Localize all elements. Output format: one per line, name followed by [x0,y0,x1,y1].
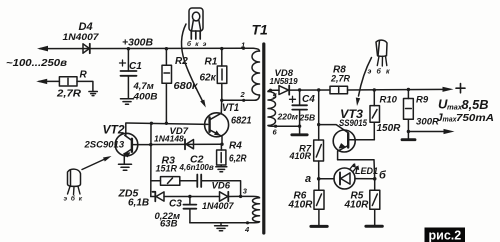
node: junction C4 / pin 6 wire [298,125,301,128]
svg-text:C4: C4 [302,94,315,105]
node: junction VT1 emitter / VD7 / R4 [220,143,223,146]
svg-text:R1: R1 [205,57,218,68]
svg-text:150R: 150R [377,123,402,134]
svg-text:3: 3 [243,186,248,195]
svg-text:25В: 25В [299,113,316,123]
svg-text:SS9015: SS9015 [339,118,368,128]
wire: VT3 emitter to node б [338,160,375,179]
transistor package icon TO-92 3D (right, for VT3) [376,40,387,66]
node: pin 4 dot [246,221,249,224]
node: junction R9 bottom [407,130,410,133]
terminal bar (R5 bottom) [366,225,382,228]
svg-text:2SC9013: 2SC9013 [84,140,125,151]
svg-text:рис.2: рис.2 [429,229,462,242]
svg-text:220м: 220м [277,112,299,122]
svg-text:~100...250в: ~100...250в [6,58,67,69]
svg-text:2,7R: 2,7R [56,88,82,99]
capacitor C4 [290,90,308,134]
svg-text:VT2: VT2 [103,123,125,137]
transformer T1 core [262,44,265,233]
transformer T1 secondary winding (pins 5-6) [268,90,276,126]
svg-text:8,5В: 8,5В [462,97,489,112]
svg-text:1N4007: 1N4007 [202,201,235,211]
svg-text:R: R [80,70,88,81]
node: junction VT3 collector branch [317,123,320,126]
node: AC input arrow (top terminal) [37,46,48,52]
svg-text:max: max [447,103,463,112]
svg-text:63В: 63В [160,219,178,230]
node: pin 6 dot [274,125,277,128]
node: junction C4 top [298,88,301,91]
resistor R4 [217,144,226,166]
svg-text:R4: R4 [229,141,242,152]
node: junction C3 top [188,195,191,198]
resistor R6 [314,179,324,225]
annotation arrow (icon to VT3) [356,58,372,107]
transistor VT3 [333,130,374,160]
svg-text:6: 6 [273,128,278,137]
svg-text:4: 4 [244,225,250,234]
wire: pin 5 to VD8 [271,89,279,91]
svg-text:б к э: б к э [187,40,208,48]
wire: vertical node (VT2 base / VD7 / R3 / ZD5) [150,123,152,196]
svg-text:+300В: +300В [122,38,153,49]
ground (R4) [216,167,227,172]
transistor package icon TO-92 (top, for VT1) [189,8,203,39]
svg-text:4,7м: 4,7м [133,81,154,92]
node: junction R2 bottom [165,122,168,125]
svg-text:4,6n100в: 4,6n100в [179,163,214,172]
svg-text:R9: R9 [416,95,429,106]
svg-text:410R: 410R [344,200,370,211]
wire: winding pin2 to VT1 collector [222,99,256,101]
svg-text:1N4007: 1N4007 [63,32,100,42]
svg-text:400В: 400В [132,92,157,103]
wire: branch to VT3 collector [319,125,349,133]
wire: VT2 collector to VT1 base [126,123,208,135]
node: junction R2 top [165,47,168,50]
node: junction base-node vertical [150,122,153,125]
transistor VT2 [115,133,151,164]
wire: minus output [408,131,447,133]
terminal bar (R6 bottom) [311,225,327,228]
resistor R5 [370,179,380,225]
terminal bar (R9 bottom) [402,132,415,140]
capacitor C2 [197,175,240,197]
transistor package icon TO-92 3D (left, for VT2) [68,169,81,194]
resistor R2 [162,49,172,124]
svg-text:1N5819: 1N5819 [270,77,299,86]
ground (C1) [121,99,134,104]
resistor R3 [151,177,198,186]
svg-text:151R: 151R [156,163,178,173]
diode D4 [83,44,90,53]
node: junction R1 top [220,47,223,50]
wire: AC mains top line [40,47,244,49]
diode VD8 [279,86,289,95]
svg-text:2,7R: 2,7R [330,74,351,84]
transformer T1 feedback winding (pins 3-4) [241,196,260,222]
label + (output) [456,84,465,93]
svg-text:6,1В: 6,1В [128,198,149,209]
svg-text:б: б [379,170,387,182]
svg-text:R10: R10 [380,95,398,106]
zener diode ZD5 [151,192,190,202]
resistor R9 [404,90,414,132]
annotation arrow (icon to VT2) [82,156,112,170]
node: junction VD7 / VT2 base [149,143,152,146]
svg-text:5: 5 [273,92,278,101]
node: junction R7 branch top [317,88,320,91]
node б [373,177,377,181]
wire: secondary positive rail [289,88,446,91]
figure label рис.2 [425,228,466,242]
svg-text:C1: C1 [129,61,142,72]
node: output minus arrow [444,129,455,134]
LED LED1 [319,163,375,189]
resistor R8 [330,86,348,94]
annotation arrow (icon to VT1) [181,24,205,108]
svg-text:VT1: VT1 [222,102,239,114]
node: junction VT1 collector / R1 / winding pin2 [220,99,223,102]
node: output plus arrow [443,87,454,92]
svg-text:6,2R: 6,2R [229,154,247,165]
svg-text:300R: 300R [416,117,440,127]
wire: R7 / VT3 collector branch [318,90,320,140]
node: pin 3 junction dot [239,195,242,198]
wire: pin 6 to common [276,125,300,127]
node: junction R10 top [373,88,376,91]
node: pin 5 dot [269,89,272,92]
node a [317,177,321,181]
svg-text:750mA: 750mA [456,112,494,124]
resistor R1 [217,49,227,101]
svg-text:410R: 410R [289,151,312,161]
node: junction C1 top [127,47,130,50]
capacitor C3 [184,197,197,223]
node: AC input arrow (bottom terminal) [36,79,47,84]
diode VD7 [151,139,222,149]
svg-text:410R: 410R [288,200,314,211]
svg-text:6821: 6821 [231,115,252,127]
ground (VT2 emitter) [119,164,132,170]
terminal bar (C4 bottom / common) [292,133,307,136]
svg-text:62к: 62к [200,73,217,84]
svg-text:T1: T1 [252,22,269,38]
svg-text:VD6: VD6 [212,181,231,192]
node: pin 2 dot [242,99,245,102]
resistor R7 [314,140,324,179]
svg-text:2: 2 [240,90,246,99]
svg-text:C3: C3 [169,199,182,210]
ground (bottom rail) [215,223,228,231]
resistor R10 [370,90,380,140]
svg-text:э б к: э б к [64,195,84,203]
resistor R (fusible) [39,77,93,91]
node: junction R9 top [407,88,410,91]
svg-text:a: a [305,173,311,185]
transformer T1 primary winding (pins 1-2) [244,48,260,100]
svg-text:1N4148: 1N4148 [154,134,184,144]
transistor VT1 [205,100,229,144]
capacitor C1 [120,49,137,98]
node: pin 1 dot [242,47,245,50]
ground (R) [89,92,97,96]
diode VD6 [190,192,241,201]
svg-text:э б к: э б к [368,68,392,76]
wire: bottom rail (C3 to pin 4) [190,222,248,224]
